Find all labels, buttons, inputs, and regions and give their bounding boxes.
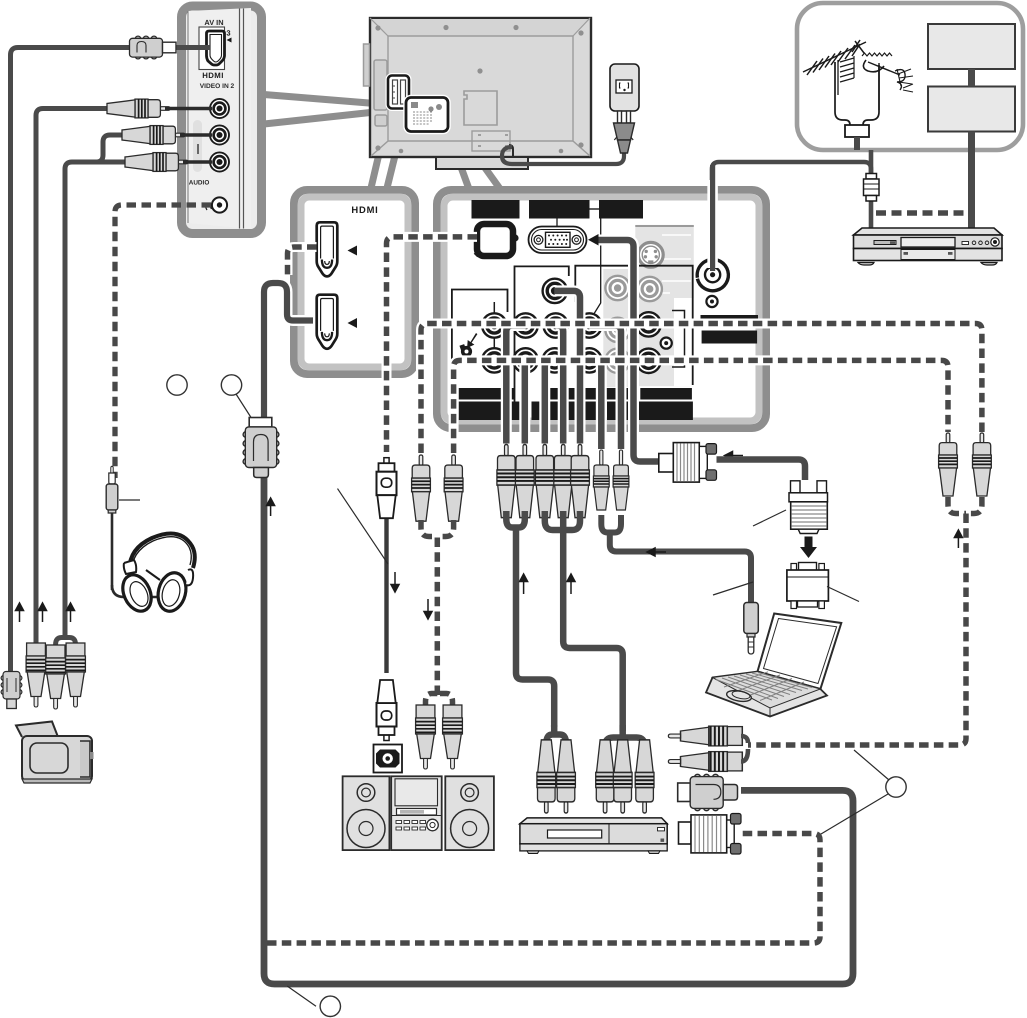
callout beam TV to HDMI panel	[371, 107, 407, 188]
HDMI port 2 arrow	[348, 318, 358, 328]
side panel jack video	[210, 99, 229, 118]
side panel headphone jack	[206, 197, 227, 212]
bar2 to VGA line	[556, 219, 558, 227]
bracket right of AV3 jacks	[672, 311, 685, 368]
side panel jack audio R	[210, 152, 229, 171]
jack R2C2	[513, 348, 537, 372]
fork triple B to DVD	[545, 511, 580, 532]
jack R2C1	[482, 348, 506, 372]
callout circle 4	[320, 996, 340, 1016]
antenna RF cable to TV	[712, 162, 871, 262]
side panel HDMI port	[199, 27, 232, 70]
jack R1C3	[544, 313, 568, 337]
grayed section B	[635, 225, 694, 386]
label line circle2 to HDMI connector	[236, 394, 252, 419]
jack R1C2	[513, 313, 537, 337]
component Pb cable	[506, 326, 525, 444]
F connector on VCR lead	[864, 150, 880, 229]
HDMI connector mid-left pointing up	[243, 418, 279, 478]
antenna leads to combiner	[835, 62, 850, 125]
bar3 pointer line	[592, 219, 601, 318]
audio cable R to side jack 3	[65, 162, 131, 630]
TV rear	[370, 18, 591, 157]
svg-text:HDMI: HDMI	[202, 71, 224, 80]
VGA connector at DVD pointing left	[679, 814, 742, 855]
DVD player	[520, 818, 667, 854]
DVD plug pair	[537, 740, 556, 813]
optical digital audio out connector	[476, 224, 519, 256]
headphones	[117, 534, 194, 616]
DVD plug triple	[596, 740, 615, 813]
HDMI port 1	[317, 222, 338, 276]
callout wedge from TV to side panel	[264, 95, 375, 125]
group box 1	[452, 290, 508, 419]
VCR / DVD recorder	[854, 228, 1003, 265]
RCA horizontal plug 2	[668, 752, 742, 772]
svg-text:VIDEO IN 2: VIDEO IN 2	[200, 83, 235, 90]
dashed audio out line 1	[421, 324, 982, 454]
mini HDMI plug to camcorder	[1, 630, 22, 709]
circle4 label line	[287, 986, 316, 1006]
grayed section A	[603, 269, 635, 387]
right pair dashed fork down	[948, 497, 982, 514]
PC audio fork to minijack	[601, 515, 621, 533]
right label bar thick	[702, 331, 758, 344]
dashed alt link VCR	[876, 210, 967, 216]
HDMI zoom panel	[294, 190, 415, 374]
toslink connector top	[377, 458, 397, 519]
antenna example box	[797, 3, 1023, 150]
optical dashed cable	[387, 237, 478, 452]
TV power cord notch	[509, 145, 513, 157]
jack Y component	[543, 279, 567, 303]
power outlet	[610, 64, 639, 111]
svg-text:AUDIO: AUDIO	[189, 180, 210, 187]
VGA connector 2 (laptop)	[789, 481, 828, 534]
group box 2	[515, 266, 569, 418]
VGA arrow	[588, 234, 599, 246]
audio system	[343, 776, 494, 850]
dashed bottom return path	[267, 834, 820, 944]
component RCA plug row	[497, 445, 516, 518]
stereo mini plug at laptop	[744, 603, 759, 655]
big solid loop cable	[264, 477, 853, 984]
jack B2 AV video	[636, 312, 660, 336]
gray jack A3	[605, 349, 629, 373]
HDMI port1 dashed cable	[288, 247, 317, 275]
TV side panel	[182, 6, 262, 234]
PC audio cable right	[589, 326, 621, 450]
TV VESA box	[464, 91, 497, 125]
svg-text:HDMI: HDMI	[351, 204, 378, 215]
label bar 2	[529, 200, 590, 219]
HDMI port 2	[317, 295, 338, 349]
label bar 1	[472, 200, 520, 219]
big down arrow	[800, 537, 817, 559]
headphone icon with arrow	[459, 333, 477, 357]
gray jack A1	[605, 276, 629, 300]
fork pair A to DVD	[506, 511, 525, 528]
HDMI port2 solid cable	[264, 283, 313, 418]
tick between R1C1 R2C1	[493, 337, 495, 348]
terminal zoom panel	[437, 190, 766, 428]
camcorder	[16, 722, 94, 784]
conversion adapter	[787, 563, 829, 609]
RCA plug down 1 (camcorder)	[26, 643, 46, 707]
callout circle 3	[886, 777, 906, 797]
power cord TV to plug	[502, 147, 624, 164]
svg-text:AV IN: AV IN	[204, 18, 223, 27]
jack R2C4	[577, 348, 601, 372]
audio cable L to side jack 2	[96, 135, 128, 162]
VHF antenna	[803, 40, 866, 95]
HDMI connector at DVD pointing left	[678, 774, 738, 810]
right label bar thin	[701, 315, 759, 322]
PC audio cable left	[589, 360, 601, 449]
group box 3	[575, 266, 692, 385]
cable box rect 1	[928, 24, 1015, 69]
RCA horizontal plug 1	[668, 726, 742, 746]
RCA plug down 3 (camcorder)	[66, 643, 86, 707]
cable box link bars	[968, 69, 975, 87]
bottom bars row B	[459, 402, 693, 421]
stereo RCA plug pair down	[416, 705, 436, 769]
callout beam TV to terminal panel	[446, 126, 503, 193]
RCA-h tails	[741, 736, 748, 762]
VGA connector 1 (to panel cable)	[659, 443, 717, 483]
TV highlighted HDMI rect	[388, 76, 409, 109]
jack R2C3	[543, 348, 567, 372]
TV screws	[375, 25, 583, 153]
S-video jack	[638, 242, 663, 267]
dashed pair fork to stereo	[421, 520, 454, 537]
arrows up left cables	[16, 603, 75, 622]
HDMI cable to side panel	[11, 48, 130, 675]
circle3 label lines	[854, 750, 889, 780]
small jack mono	[661, 338, 672, 349]
callout circle 1	[167, 375, 187, 395]
component Y cable	[555, 291, 580, 444]
jack R1C4	[577, 313, 601, 337]
white casings for panel cables	[506, 240, 659, 462]
component audio R cable	[556, 326, 564, 444]
right dashed pair plugs	[939, 433, 958, 496]
jack B3 AV audio	[636, 349, 660, 373]
jack R1C1	[482, 313, 506, 337]
RF cable into jack	[707, 180, 718, 268]
cable box rect 2	[928, 87, 1015, 132]
TV highlighted terminal rect	[406, 98, 448, 132]
VGA cable from panel	[599, 240, 660, 462]
adapter label lines	[713, 582, 753, 595]
TV pedestal	[436, 157, 528, 169]
gray jack B1	[638, 277, 662, 301]
arrows small	[267, 498, 963, 619]
component Pr cable	[522, 360, 529, 443]
headphone dashed cable	[115, 205, 211, 478]
stereo optical port	[374, 745, 403, 773]
dashed audio out line 2	[454, 360, 948, 453]
toslink cable	[384, 517, 388, 673]
toslink label line	[338, 489, 389, 564]
callout circle 2	[221, 375, 241, 395]
combiner downlead	[854, 137, 860, 150]
video cable to side jack 1	[36, 109, 113, 648]
RF antenna jack	[697, 259, 728, 290]
UHF antenna	[862, 53, 913, 110]
antenna combiner	[845, 125, 869, 137]
RCA plug down 2 (camcorder)	[46, 645, 66, 709]
RCA side plug 1	[107, 99, 170, 118]
arrow left at VGA1	[725, 452, 744, 460]
RCA side plug 3	[125, 153, 188, 172]
laptop VGA cable	[717, 460, 806, 481]
TV side connector strips	[364, 44, 388, 126]
toslink connector bottom	[377, 680, 397, 741]
component audio L cable	[545, 360, 555, 443]
svg-text:3: 3	[226, 29, 230, 38]
side panel jack audio L	[210, 125, 229, 144]
gray jack A2	[605, 318, 629, 342]
tick above jack R1C1	[493, 302, 495, 313]
camcorder cable ends fork	[56, 628, 76, 649]
RCA side plug 2	[122, 126, 185, 145]
HDMI port 1 arrow	[348, 246, 358, 256]
small jack below RF	[706, 296, 717, 307]
small audio plug pair	[593, 450, 609, 510]
3.5mm headphone plug	[106, 466, 160, 597]
HDMI plug into AV IN 3	[130, 36, 211, 59]
bar2-bar3 link line	[590, 208, 600, 210]
PC VGA input connector	[529, 227, 587, 254]
tick between jacks	[197, 144, 199, 154]
label bar 3	[599, 200, 643, 219]
power plug	[614, 111, 635, 153]
dashed pair plugs left	[412, 455, 431, 521]
laptop	[706, 614, 841, 717]
bottom bars row A	[459, 388, 692, 400]
TV bottom board panel	[472, 131, 510, 151]
